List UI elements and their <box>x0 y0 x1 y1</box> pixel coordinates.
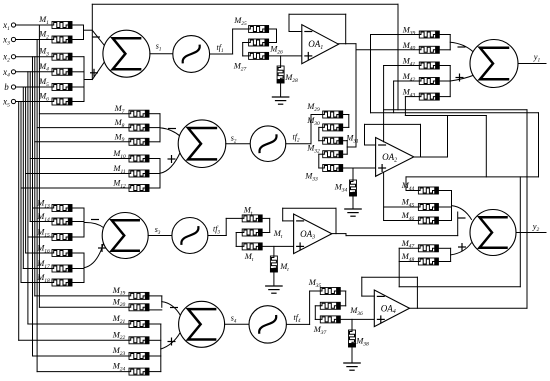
svg-text:M35: M35 <box>308 277 322 289</box>
svg-text:M37: M37 <box>313 324 327 336</box>
svg-text:M29: M29 <box>306 101 320 113</box>
svg-text:tf1: tf1 <box>217 43 224 54</box>
svg-text:M19: M19 <box>112 285 126 297</box>
svg-text:M24: M24 <box>112 361 126 373</box>
svg-text:s4: s4 <box>231 314 237 325</box>
svg-text:tf2: tf2 <box>293 133 300 144</box>
svg-text:M38: M38 <box>355 336 369 348</box>
svg-text:x3: x3 <box>2 35 10 47</box>
svg-text:s1: s1 <box>156 42 162 53</box>
svg-text:tf4: tf4 <box>294 313 301 324</box>
svg-text:Mt: Mt <box>273 228 283 240</box>
svg-text:M28: M28 <box>284 72 298 84</box>
svg-text:y1: y1 <box>533 52 541 64</box>
svg-text:Mt: Mt <box>279 261 289 273</box>
svg-text:M21: M21 <box>112 313 126 325</box>
svg-text:y2: y2 <box>532 221 540 233</box>
svg-text:M36: M36 <box>349 305 363 317</box>
svg-text:M32: M32 <box>306 143 320 155</box>
svg-text:Mt: Mt <box>244 251 254 263</box>
svg-text:M26: M26 <box>269 44 283 56</box>
svg-text:M20: M20 <box>112 296 126 308</box>
svg-text:M25: M25 <box>233 15 247 27</box>
svg-text:M22: M22 <box>112 329 126 341</box>
svg-text:tf3: tf3 <box>213 225 220 236</box>
svg-text:b: b <box>4 82 9 92</box>
svg-text:M1: M1 <box>38 14 49 26</box>
svg-text:x1: x1 <box>2 20 10 32</box>
svg-text:s3: s3 <box>155 225 161 236</box>
svg-text:x4: x4 <box>2 67 10 79</box>
svg-text:M33: M33 <box>304 171 318 183</box>
svg-text:x5: x5 <box>2 97 10 109</box>
svg-text:x2: x2 <box>2 52 10 64</box>
svg-text:M30: M30 <box>306 115 320 127</box>
svg-text:M34: M34 <box>334 182 348 194</box>
svg-text:s2: s2 <box>231 134 237 145</box>
svg-text:M27: M27 <box>233 61 247 73</box>
svg-text:M23: M23 <box>112 345 126 357</box>
